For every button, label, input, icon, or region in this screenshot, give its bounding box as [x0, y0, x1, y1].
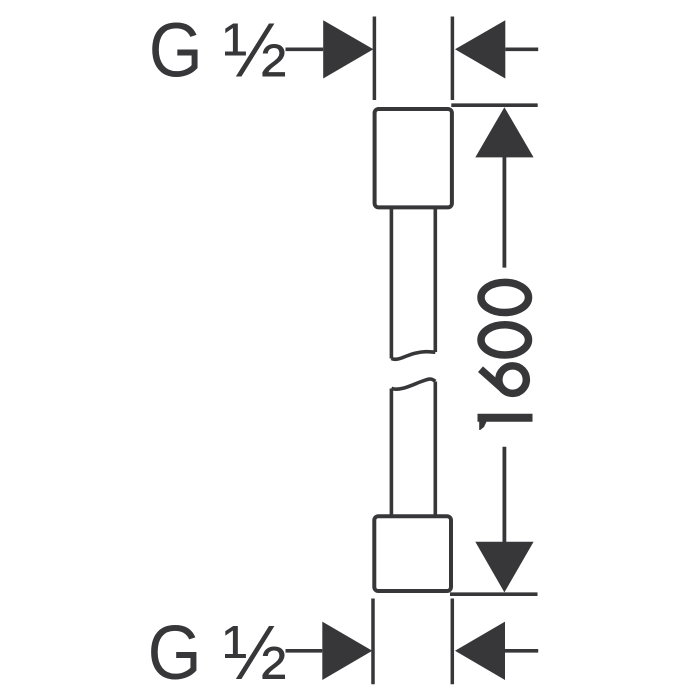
svg-text:G: G [149, 7, 203, 93]
svg-text:½: ½ [223, 610, 287, 696]
svg-text:½: ½ [223, 7, 287, 93]
svg-text:G: G [148, 610, 202, 696]
